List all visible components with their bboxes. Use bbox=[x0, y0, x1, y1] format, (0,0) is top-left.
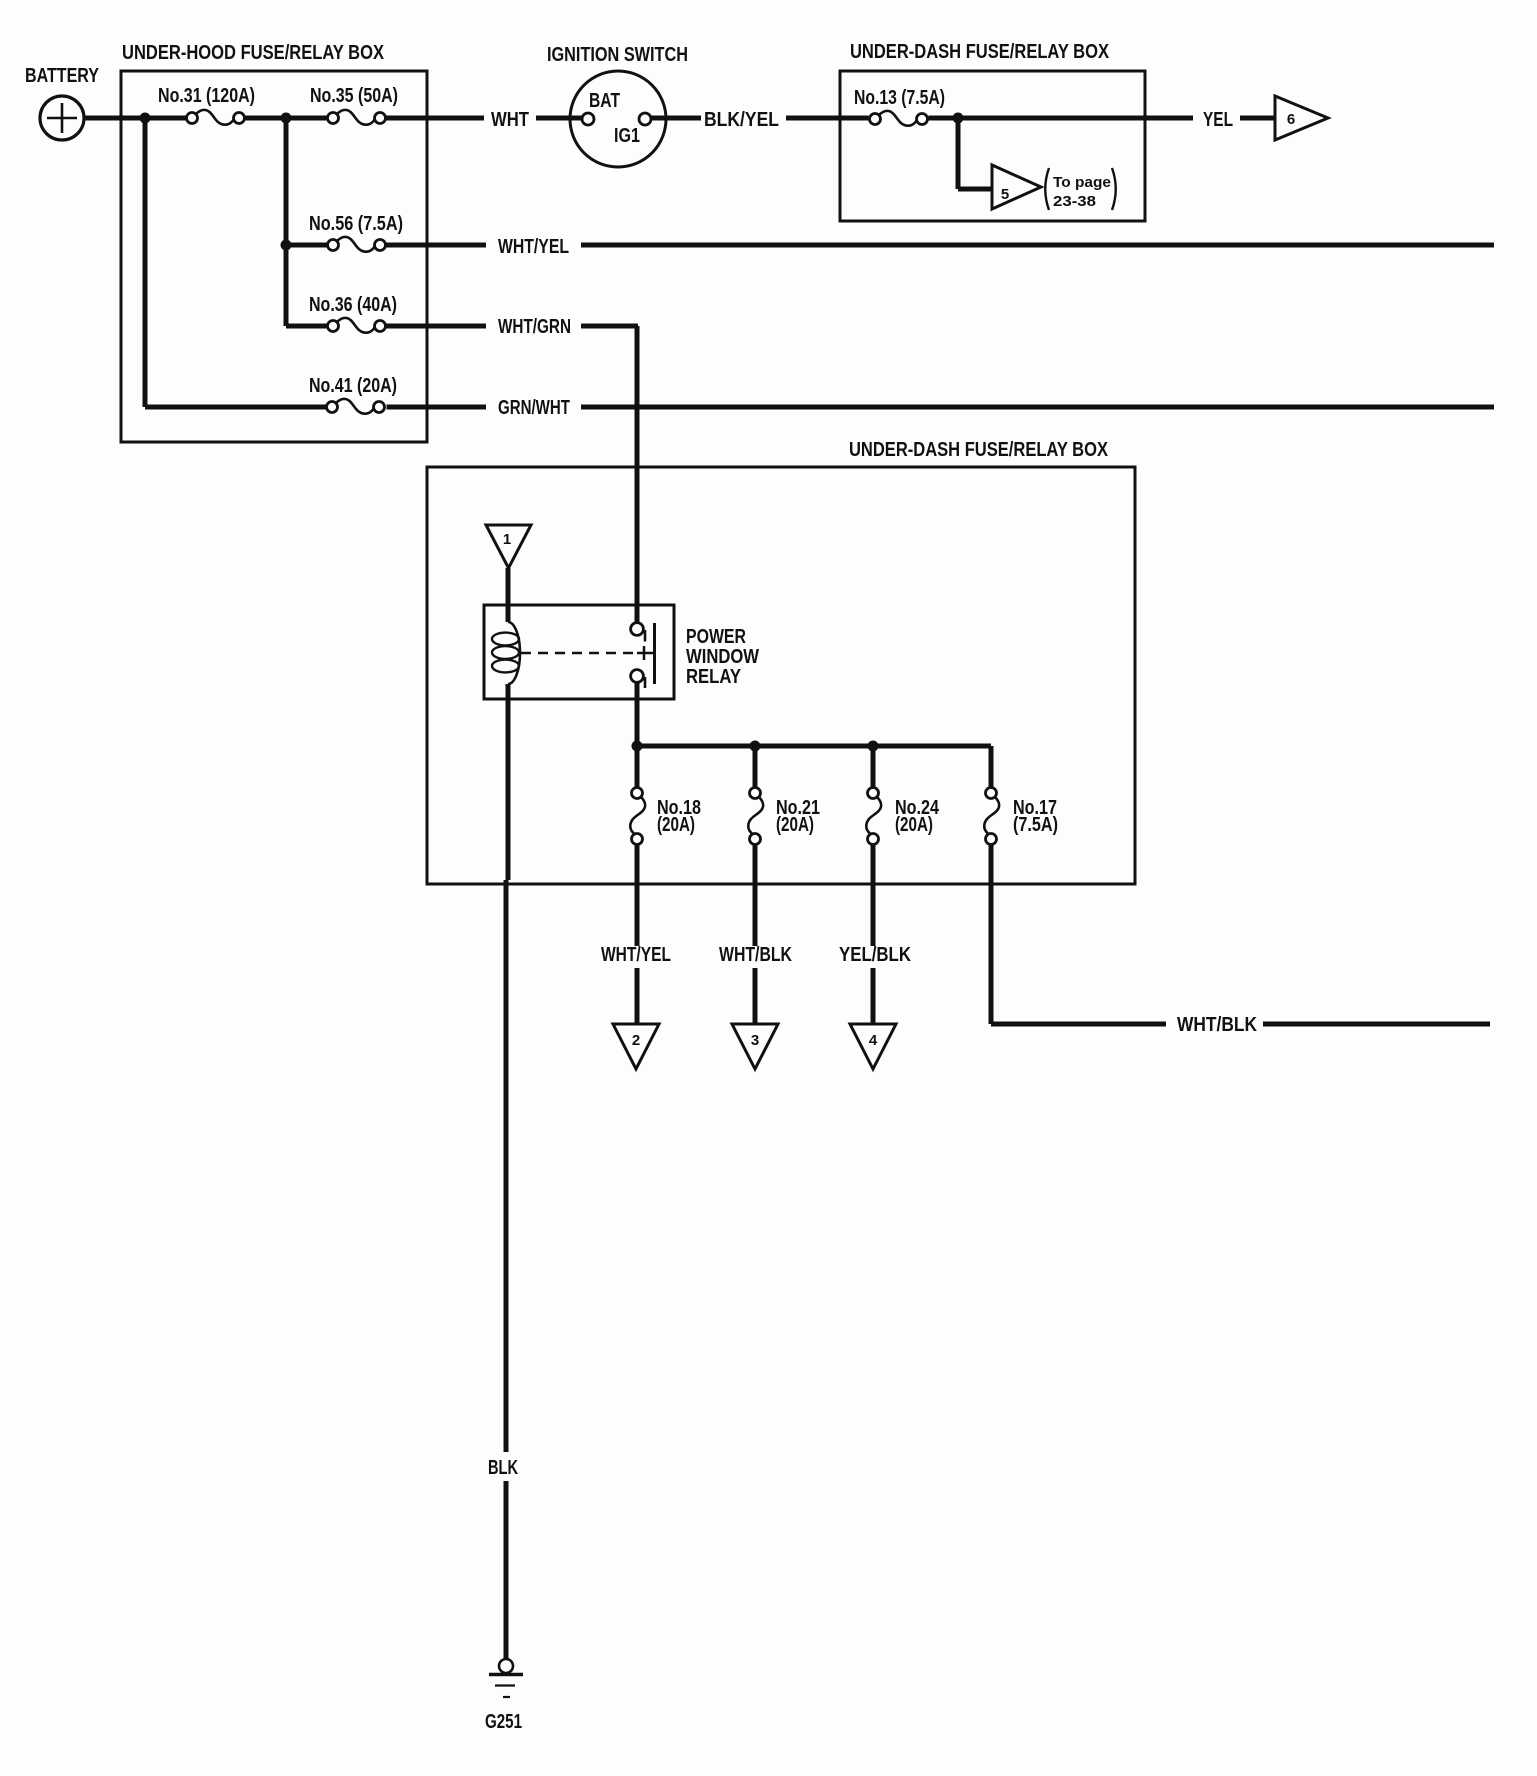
svg-text:23-38: 23-38 bbox=[1053, 193, 1096, 210]
svg-text:3: 3 bbox=[751, 1032, 759, 1049]
svg-text:6: 6 bbox=[1287, 111, 1295, 128]
svg-text:G251: G251 bbox=[485, 1711, 522, 1733]
svg-text:UNDER-DASH FUSE/RELAY BOX: UNDER-DASH FUSE/RELAY BOX bbox=[850, 41, 1110, 63]
svg-text:UNDER-DASH FUSE/RELAY BOX: UNDER-DASH FUSE/RELAY BOX bbox=[849, 439, 1109, 461]
svg-text:BLK/YEL: BLK/YEL bbox=[704, 109, 779, 131]
svg-text:BAT: BAT bbox=[589, 90, 620, 112]
svg-text:WHT/YEL: WHT/YEL bbox=[498, 236, 569, 258]
svg-text:WINDOW: WINDOW bbox=[686, 646, 759, 668]
svg-text:5: 5 bbox=[1001, 186, 1009, 203]
svg-text:No.31 (120A): No.31 (120A) bbox=[158, 85, 255, 107]
svg-text:GRN/WHT: GRN/WHT bbox=[498, 397, 570, 419]
svg-text:POWER: POWER bbox=[686, 626, 746, 648]
svg-text:IGNITION SWITCH: IGNITION SWITCH bbox=[547, 44, 688, 66]
svg-text:BATTERY: BATTERY bbox=[25, 65, 100, 87]
svg-text:WHT/YEL: WHT/YEL bbox=[601, 944, 671, 966]
svg-text:YEL: YEL bbox=[1203, 109, 1233, 131]
svg-text:RELAY: RELAY bbox=[686, 666, 742, 688]
svg-text:No.41 (20A): No.41 (20A) bbox=[309, 375, 397, 397]
svg-text:WHT/GRN: WHT/GRN bbox=[498, 316, 571, 338]
svg-text:WHT/BLK: WHT/BLK bbox=[1177, 1014, 1257, 1036]
svg-text:WHT: WHT bbox=[491, 109, 529, 131]
svg-text:4: 4 bbox=[869, 1032, 878, 1049]
svg-text:IG1: IG1 bbox=[614, 125, 640, 147]
svg-text:(20A): (20A) bbox=[657, 814, 695, 836]
svg-text:UNDER-HOOD FUSE/RELAY BOX: UNDER-HOOD FUSE/RELAY BOX bbox=[122, 42, 385, 64]
svg-text:2: 2 bbox=[632, 1032, 640, 1049]
svg-text:No.35 (50A): No.35 (50A) bbox=[310, 85, 398, 107]
svg-text:No.13 (7.5A): No.13 (7.5A) bbox=[854, 87, 945, 109]
svg-text:(20A): (20A) bbox=[895, 814, 933, 836]
svg-text:(7.5A): (7.5A) bbox=[1013, 814, 1058, 836]
svg-text:To page: To page bbox=[1053, 174, 1111, 191]
svg-text:No.36 (40A): No.36 (40A) bbox=[309, 294, 397, 316]
svg-text:BLK: BLK bbox=[488, 1457, 518, 1479]
svg-text:WHT/BLK: WHT/BLK bbox=[719, 944, 792, 966]
svg-text:(20A): (20A) bbox=[776, 814, 814, 836]
svg-text:No.56 (7.5A): No.56 (7.5A) bbox=[309, 213, 403, 235]
svg-text:YEL/BLK: YEL/BLK bbox=[839, 944, 911, 966]
svg-text:1: 1 bbox=[503, 531, 511, 548]
